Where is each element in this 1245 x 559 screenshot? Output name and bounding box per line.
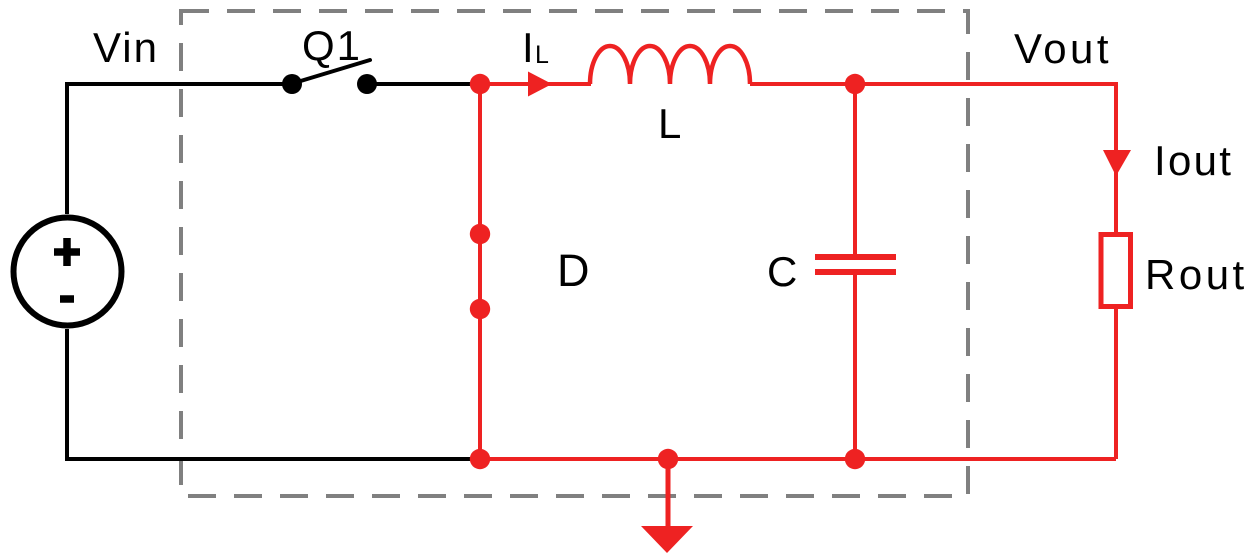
svg-text:Q1: Q1 <box>302 22 362 69</box>
svg-text:L: L <box>535 41 549 69</box>
node capacitor bottom junction dot <box>845 449 865 469</box>
svg-text:C: C <box>767 248 797 295</box>
wire node SW to inductor (red) <box>480 82 591 86</box>
wire resistor Rout to bottom corner (red) <box>1114 309 1118 459</box>
capacitor C <box>815 257 896 272</box>
label IL <box>522 24 549 71</box>
voltage source Vin <box>14 218 122 326</box>
node diode branch lower dot <box>470 299 490 319</box>
node Vout junction dot <box>845 74 865 94</box>
node SW junction dot <box>470 74 490 94</box>
ground <box>641 459 693 553</box>
wire from Vin- to bottom node (black) <box>67 329 480 459</box>
current arrow IL <box>528 72 552 97</box>
node bottom-left junction dot <box>470 449 490 469</box>
node diode branch upper dot <box>470 224 490 244</box>
resistor Rout <box>1101 235 1131 307</box>
current arrow Iout <box>1103 150 1131 176</box>
switch Q1 <box>282 60 377 94</box>
wire bottom return run (red) <box>480 457 1116 461</box>
svg-text:Rout: Rout <box>1145 251 1245 298</box>
svg-text:L: L <box>658 100 681 147</box>
svg-text:D: D <box>557 245 590 296</box>
wire from switch Q1 to node SW (black) <box>367 82 480 86</box>
svg-text:I: I <box>522 24 534 71</box>
wire diode branch D, node SW to bottom node (red vertical) <box>478 84 482 459</box>
converter block dashed boundary <box>181 11 968 496</box>
wire inductor to Vout corner (red) <box>750 84 1116 232</box>
wire capacitor bottom to bottom node (red) <box>853 275 857 459</box>
node ground junction dot <box>658 449 678 469</box>
svg-text:Iout: Iout <box>1154 137 1233 184</box>
svg-text:Vin: Vin <box>93 24 159 71</box>
svg-text:Vout: Vout <box>1014 25 1112 72</box>
inductor L <box>590 46 750 84</box>
wire from Vin+ to switch Q1 (black) <box>67 84 292 214</box>
wire node Vout to capacitor top (red) <box>853 84 857 254</box>
